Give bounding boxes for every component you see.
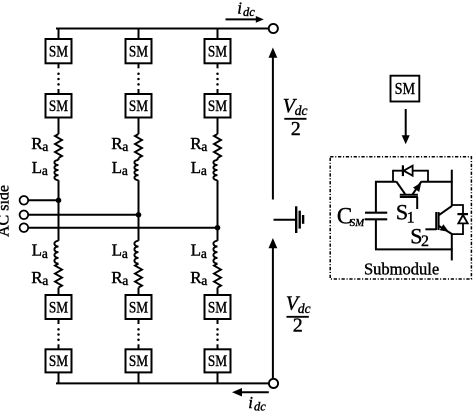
svg-text:a: a (201, 246, 207, 261)
svg-text:SM: SM (129, 299, 148, 316)
svg-text:L: L (32, 241, 42, 260)
svg-text:Submodule: Submodule (364, 260, 439, 279)
svg-text:SM: SM (208, 299, 227, 316)
svg-text:L: L (191, 158, 201, 177)
svg-text:SM: SM (208, 98, 227, 115)
svg-text:dc: dc (243, 5, 255, 19)
svg-text:a: a (42, 163, 48, 178)
svg-text:a: a (201, 163, 207, 178)
svg-text:SM: SM (129, 43, 148, 60)
svg-text:SM: SM (350, 217, 365, 229)
svg-text:a: a (122, 163, 128, 178)
svg-text:a: a (42, 246, 48, 261)
svg-text:SM: SM (129, 98, 148, 115)
svg-text:SM: SM (129, 353, 148, 370)
svg-text:SM: SM (49, 43, 68, 60)
svg-text:2: 2 (293, 315, 303, 337)
svg-text:a: a (122, 273, 128, 288)
svg-text:L: L (32, 158, 42, 177)
svg-text:dc: dc (295, 103, 308, 118)
svg-text:i: i (248, 393, 253, 412)
svg-text:i: i (237, 0, 242, 17)
svg-text:a: a (122, 139, 128, 154)
svg-text:a: a (201, 273, 207, 288)
svg-text:L: L (112, 241, 122, 260)
svg-text:a: a (122, 246, 128, 261)
svg-text:SM: SM (49, 98, 68, 115)
svg-text:SM: SM (49, 299, 68, 316)
svg-text:a: a (201, 139, 207, 154)
svg-text:AC side: AC side (0, 185, 13, 237)
svg-text:2: 2 (291, 118, 301, 140)
svg-text:SM: SM (208, 353, 227, 370)
svg-text:L: L (191, 241, 201, 260)
svg-text:SM: SM (208, 43, 227, 60)
svg-text:L: L (112, 158, 122, 177)
svg-text:2: 2 (421, 233, 429, 250)
svg-text:SM: SM (395, 79, 416, 98)
svg-text:SM: SM (49, 353, 68, 370)
svg-text:dc: dc (254, 400, 266, 412)
svg-text:a: a (42, 139, 48, 154)
svg-text:a: a (42, 273, 48, 288)
